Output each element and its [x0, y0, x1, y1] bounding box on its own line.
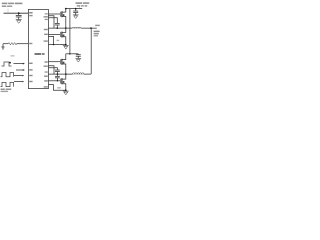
capacitor C4 (bootstrap 2): [55, 69, 60, 71]
pin label right tsrc2: [44, 66, 48, 67]
op-amp/IC U1 body: [28, 10, 48, 89]
label: power input line1: [76, 2, 82, 4]
node rail/cap: [75, 8, 77, 10]
ground (Q2 source): [63, 44, 69, 46]
arrow tick power input: [78, 6, 80, 8]
label: gate drive supply text line1: [2, 3, 8, 5]
pin label right sw1: [44, 29, 48, 30]
transistor Q4 gate bar: [59, 79, 61, 84]
resistor R1: [3, 43, 8, 45]
pin label left IN1: [29, 63, 32, 64]
pin label right boost2: [45, 71, 48, 72]
capacitor C1 (supply bypass): [18, 13, 20, 15]
switch node wire 2: [48, 73, 72, 75]
node sw2: [65, 73, 67, 75]
waveform 1 end blob: [9, 62, 11, 64]
arrow to input pin 1: [14, 63, 24, 65]
transistor Q2 source lead: [62, 37, 66, 45]
transistor Q2 channel: [61, 32, 63, 38]
transistor Q3 body diode: [63, 62, 65, 64]
output bus vertical: [90, 28, 92, 74]
waveform input 2: [1, 73, 14, 77]
pin label left IN4: [29, 81, 32, 82]
node supply/cap junction: [18, 12, 20, 14]
wire tsource sense 2: [48, 66, 54, 74]
wire L1 to output node: [81, 27, 97, 29]
transistor Q1 drain lead: [62, 9, 66, 13]
transistor Q2 drain lead: [62, 28, 66, 32]
pin label left IN2: [29, 69, 32, 70]
node feed/rail2: [69, 53, 71, 55]
pin label right tgate2: [44, 61, 47, 62]
ground (Q4 source): [65, 89, 67, 92]
pin label right pgnd: [44, 86, 48, 87]
ground (input cap): [73, 14, 79, 16]
label: small value note 1: [57, 40, 60, 41]
transistor Q3 source lead: [62, 64, 66, 74]
inductor L2: [73, 73, 85, 74]
pin label right sw2: [44, 76, 48, 77]
wire boost 1: [48, 18, 57, 24]
wire supply to VCC pin: [4, 12, 29, 14]
transistor Q3 drain lead: [62, 54, 66, 60]
transistor Q1 gate bar: [59, 12, 61, 17]
wire gate drive Q1: [48, 13, 60, 15]
arrow to input pin 2: [16, 69, 23, 71]
transistor Q4 body diode: [63, 81, 65, 83]
label: pwm control signals line2: [1, 91, 9, 92]
power rail bottom section: [66, 53, 79, 55]
label: pwm control signals line1: [1, 89, 5, 91]
transistor Q4 source lead: [62, 84, 66, 91]
inductor L1 baseline shade: [72, 28, 81, 30]
wire to input pin 3: [14, 75, 23, 77]
node fb/source wire: [53, 44, 54, 45]
power feed wire down: [69, 9, 71, 54]
capacitor C3 (bulk input): [75, 9, 77, 11]
wire gate drive Q2: [48, 33, 60, 35]
transistor Q1 body diode: [63, 14, 65, 16]
node source1/gnd: [65, 44, 67, 46]
node rail/drain Q1: [65, 8, 67, 10]
label: output note line3: [94, 33, 99, 35]
part number LT1162: [35, 53, 42, 55]
label: gate drive supply text line2: [2, 6, 7, 8]
capacitor C5 (lower bootstrap aux): [56, 74, 58, 76]
label: output note line4: [94, 35, 98, 36]
pin label right tgate1: [45, 13, 48, 14]
pin label left IN3: [29, 75, 32, 76]
node output: [90, 27, 92, 29]
pin label right bgate2: [44, 80, 48, 81]
pin label right boost1: [45, 19, 48, 20]
node sw1: [65, 27, 67, 29]
wire boost 2: [48, 68, 57, 70]
inductor L1: [72, 27, 81, 28]
transistor Q1 source lead: [62, 17, 66, 29]
label: output note line1: [95, 25, 100, 26]
transistor Q2 gate bar: [59, 32, 61, 37]
pin label left VCC: [29, 12, 32, 14]
label: output note line2: [94, 31, 100, 32]
node source Q4 / ground: [65, 89, 67, 91]
ground (bypass 2): [76, 58, 82, 60]
transistor Q4 drain lead: [62, 74, 66, 79]
ground (supply cap): [16, 19, 22, 21]
transistor Q4 channel: [61, 78, 63, 84]
label: power input line2: [77, 5, 80, 7]
capacitor C2 (bootstrap 1): [55, 22, 60, 24]
label: small note: [11, 55, 15, 56]
node bootstrap/sw1: [57, 27, 59, 29]
wire L2 to output bus: [84, 73, 91, 75]
node bootstrap2/sw2: [57, 73, 59, 75]
transistor Q1 channel: [61, 11, 63, 17]
waveform input 3: [1, 82, 14, 86]
switch node wire 1: [48, 27, 72, 29]
pin label right bgate1: [44, 34, 48, 35]
transistor Q3 gate bar: [59, 59, 61, 64]
capacitor C6 (bypass 2): [77, 53, 79, 56]
power rail top: [66, 8, 82, 10]
source sense wire 1: [48, 44, 65, 46]
inductor L2 baseline shade: [73, 73, 85, 75]
ground (resistor): [1, 46, 4, 48]
arrow tick from label to wire: [7, 9, 9, 13]
pin label right tsrc1: [44, 16, 48, 17]
transistor Q2 body diode: [63, 35, 65, 37]
label: small value note 2: [57, 87, 61, 88]
wire gate drive Q3: [48, 61, 60, 63]
wire gate feedback Q2: [48, 36, 53, 44]
pin label left bias: [29, 43, 32, 44]
waveform input 1: [2, 62, 12, 66]
wire gate drive Q4: [48, 80, 60, 82]
transistor Q3 channel: [61, 59, 63, 65]
pin label right bfb1: [44, 40, 48, 41]
wire tsource sense 1: [48, 16, 54, 28]
node cap/gate wire: [57, 80, 58, 81]
wire to input pin 4: [14, 81, 23, 83]
wire resistor to ground: [2, 44, 4, 47]
pin label left VCC2: [29, 15, 32, 16]
wire pgnd: [48, 85, 65, 91]
